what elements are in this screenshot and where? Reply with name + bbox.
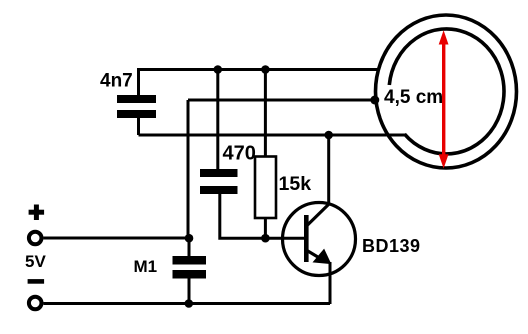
white text backing for 4,5 cm (383, 87, 442, 106)
svg-text:470: 470 (223, 143, 256, 165)
wire 15k top lead x=265.4 (264, 70, 267, 158)
wire 470 bottom lead to base rail (220, 193, 266, 238)
node base rail junction (261, 234, 270, 243)
node ground rail / M1 (185, 299, 194, 308)
wire collector lead x=328.7 (327, 135, 330, 205)
node collector / coil wire (324, 131, 333, 140)
wire bottom coil rail y=135 (139, 134, 407, 137)
node plus rail / M1 (185, 234, 194, 243)
capacitor C2 470 (200, 169, 238, 194)
svg-text:5V: 5V (25, 252, 46, 271)
terminal plus (29, 205, 44, 221)
wire 15k bottom lead (264, 218, 267, 238)
capacitor M1 (173, 256, 207, 279)
node top wire / 15k (261, 65, 270, 74)
wire 4n7 bottom lead (137, 117, 140, 135)
wire 470 top lead x=217.8 (216, 70, 219, 170)
capacitor C1 4n7 (117, 95, 156, 118)
svg-text:M1: M1 (134, 257, 158, 276)
transistor emitter arrowhead (314, 250, 331, 264)
wire 4n7 top lead (137, 68, 140, 96)
wire middle coil wire y=100 (188, 99, 374, 102)
terminal circle bottom (29, 297, 42, 310)
terminal circle top (29, 232, 42, 245)
wire ground rail y=303.5 (44, 302, 331, 305)
wire M1 top lead (188, 238, 191, 256)
coil L1 outer turn (376, 15, 517, 168)
svg-text:4,5 cm: 4,5 cm (384, 87, 443, 108)
resistor R1 15k (255, 157, 276, 219)
svg-text:4n7: 4n7 (100, 71, 133, 92)
wire base rail to transistor (265, 237, 304, 240)
node top wire / 470 (214, 65, 223, 74)
red dimension arrow (439, 30, 449, 168)
terminal minus (28, 279, 44, 284)
node coil tap (370, 96, 379, 105)
wire M1 bottom lead (188, 278, 191, 304)
coil L1 inner turn (389, 29, 504, 154)
svg-text:BD139: BD139 (362, 236, 421, 256)
wire top rail y=69.5 (138, 68, 378, 71)
wire plus rail y=238 (44, 237, 190, 240)
transistor Q1 BD139 (283, 203, 356, 305)
wire vertical x=188 from middle wire to plus rail (187, 100, 190, 240)
svg-text:15k: 15k (279, 173, 312, 195)
